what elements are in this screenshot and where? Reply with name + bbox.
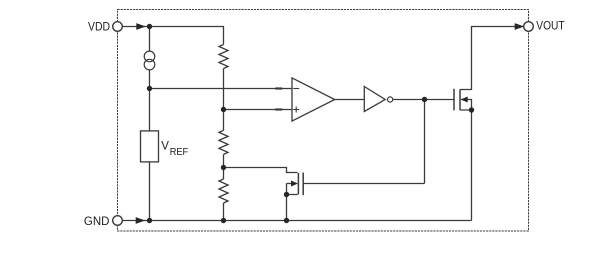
svg-text:VDD: VDD xyxy=(88,22,110,34)
svg-text:GND: GND xyxy=(84,216,110,228)
svg-text:VOUT: VOUT xyxy=(536,21,564,33)
svg-text:V: V xyxy=(161,140,169,152)
svg-text:REF: REF xyxy=(170,147,189,158)
